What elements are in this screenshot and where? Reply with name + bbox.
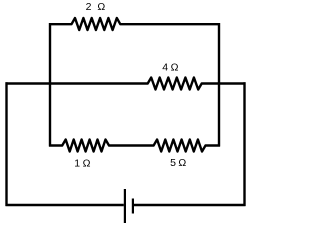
svg-text:Ω: Ω	[171, 61, 179, 73]
svg-text:1: 1	[74, 158, 80, 170]
svg-text:4: 4	[162, 61, 168, 73]
svg-text:2: 2	[86, 1, 92, 13]
svg-text:Ω: Ω	[83, 158, 91, 170]
svg-text:Ω: Ω	[97, 1, 105, 13]
svg-text:Ω: Ω	[178, 157, 186, 169]
svg-text:5: 5	[170, 157, 176, 169]
